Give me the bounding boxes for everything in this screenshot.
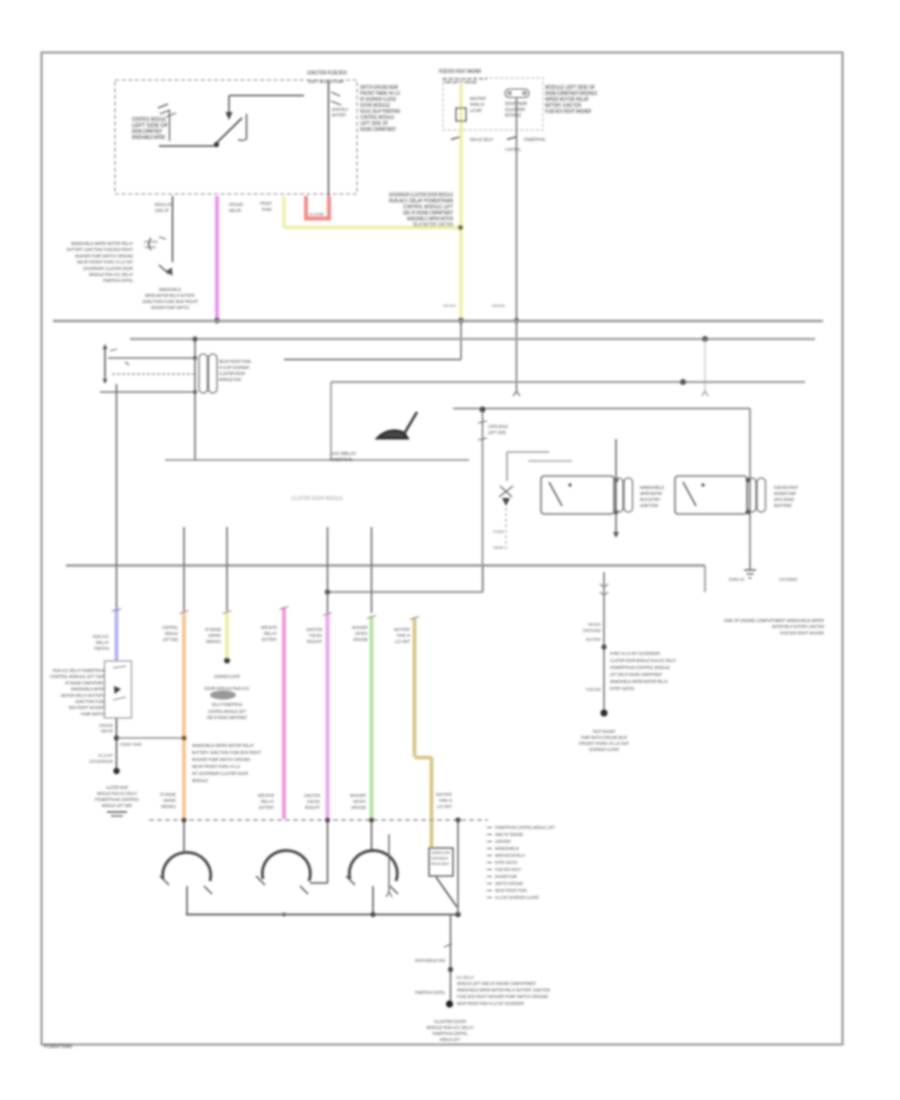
svg-text:COMPARTMENT: COMPARTMENT bbox=[208, 633, 221, 638]
svg-text:POWERTRAIN: POWERTRAIN bbox=[94, 646, 109, 651]
svg-text:MOTOR RELAY BATTERY: MOTOR RELAY BATTERY bbox=[61, 693, 105, 698]
svg-text:WIPER MOTOR RELAY: WIPER MOTOR RELAY bbox=[495, 853, 525, 858]
svg-text:HI LO INT: HI LO INT bbox=[98, 753, 113, 758]
svg-text:OF ENGINE: OF ENGINE bbox=[160, 792, 176, 797]
svg-text:RUN ACC DELAY POWERTRAIN: RUN ACC DELAY POWERTRAIN bbox=[53, 668, 105, 673]
svg-text:CLUSTER DOOR: CLUSTER DOOR bbox=[219, 371, 245, 376]
svg-text:NEAR FRONT PARK HI LO INT: NEAR FRONT PARK HI LO INT bbox=[77, 260, 133, 265]
svg-text:NEAR: NEAR bbox=[101, 729, 113, 734]
svg-text:WINDSHIELD WIPER: WINDSHIELD WIPER bbox=[71, 687, 105, 692]
svg-text:LO INT GOVERNOR: LO INT GOVERNOR bbox=[779, 577, 797, 582]
svg-text:NEAR FRONT: NEAR FRONT bbox=[436, 792, 452, 797]
svg-text:RIGHT: RIGHT bbox=[307, 639, 322, 644]
svg-text:SIDE OF ENGINE COMPARTMENT: SIDE OF ENGINE COMPARTMENT bbox=[207, 715, 247, 720]
svg-text:MODULE: MODULE bbox=[165, 631, 178, 636]
svg-text:SWITCH GROUND: SWITCH GROUND bbox=[495, 881, 523, 886]
svg-text:WIPER MOTOR: WIPER MOTOR bbox=[261, 625, 277, 630]
svg-text:LO INT: LO INT bbox=[395, 639, 410, 644]
svg-text:MODULE RUN ACC DELAY: MODULE RUN ACC DELAY bbox=[97, 791, 137, 796]
svg-text:HI LO INT: HI LO INT bbox=[309, 212, 324, 217]
svg-text:RELAY: RELAY bbox=[261, 799, 274, 804]
svg-text:POWERTRAIN: POWERTRAIN bbox=[524, 137, 545, 142]
svg-text:JUNCTION FUSE BOX: JUNCTION FUSE BOX bbox=[307, 71, 348, 77]
svg-text:OF ENGINE: OF ENGINE bbox=[205, 627, 221, 632]
svg-text:JUNCTION: JUNCTION bbox=[640, 503, 658, 508]
svg-text:MODULE RUN ACC DELAY: MODULE RUN ACC DELAY bbox=[427, 1025, 474, 1030]
svg-text:FRONT PARK HI LO INT: FRONT PARK HI LO INT bbox=[579, 741, 629, 746]
svg-text:CONTROL MODULE LEFT SIDE: CONTROL MODULE LEFT SIDE bbox=[50, 674, 105, 679]
svg-text:GROUND: GROUND bbox=[492, 303, 505, 308]
svg-text:DOOR MODULE: DOOR MODULE bbox=[505, 113, 521, 118]
svg-text:WINDSHIELD WIPER MOTOR RELAY B: WINDSHIELD WIPER MOTOR RELAY BATTERY JUN… bbox=[457, 988, 550, 993]
svg-text:COMPARTMENT: COMPARTMENT bbox=[495, 839, 511, 844]
svg-text:POWERTRAIN CONTROL MODULE LEFT: POWERTRAIN CONTROL MODULE LEFT bbox=[495, 825, 555, 830]
svg-text:COMPARTMENT: COMPARTMENT bbox=[144, 245, 156, 250]
svg-text:HI LO INT GOVERNOR: HI LO INT GOVERNOR bbox=[219, 365, 249, 370]
svg-text:NEAR: NEAR bbox=[229, 208, 241, 213]
svg-text:NEAR FRONT PARK: NEAR FRONT PARK bbox=[495, 888, 527, 893]
svg-text:BATTERY JUNCTION FUSE BOX RIGH: BATTERY JUNCTION FUSE BOX RIGHT bbox=[67, 247, 133, 252]
svg-text:DOOR MODULE RUN ACC: DOOR MODULE RUN ACC bbox=[205, 686, 251, 691]
svg-text:POWERTRAIN CONTROL: POWERTRAIN CONTROL bbox=[433, 1031, 468, 1036]
svg-text:GOVERNOR CLUSTER: GOVERNOR CLUSTER bbox=[214, 674, 240, 679]
svg-text:CONTROL MODULE LEFT: CONTROL MODULE LEFT bbox=[208, 709, 246, 714]
svg-text:SIDE OF: SIDE OF bbox=[155, 208, 169, 213]
svg-text:RUN ACC DELAY: RUN ACC DELAY bbox=[470, 137, 493, 142]
svg-text:FRONT: FRONT bbox=[260, 201, 272, 206]
svg-text:INT GOVERNOR CLUSTER DOOR: INT GOVERNOR CLUSTER DOOR bbox=[192, 771, 248, 776]
svg-text:RELAY BATTERY JUNCTION: RELAY BATTERY JUNCTION bbox=[413, 223, 453, 229]
svg-text:WINDSHIELD WIPER MOTOR RELAY: WINDSHIELD WIPER MOTOR RELAY bbox=[610, 679, 668, 684]
svg-text:PUMP SWITCH: PUMP SWITCH bbox=[588, 622, 601, 627]
svg-text:LEFT SIDE OF ENGINE COMPARTMEN: LEFT SIDE OF ENGINE COMPARTMENT bbox=[610, 672, 662, 677]
svg-text:BATTERY JUNCTION FUSE BOX RIGH: BATTERY JUNCTION FUSE BOX RIGHT bbox=[192, 750, 261, 755]
svg-text:PUMP SWITCH: PUMP SWITCH bbox=[443, 303, 456, 308]
svg-text:MODULE RUN ACC DELAY: MODULE RUN ACC DELAY bbox=[89, 272, 134, 277]
svg-text:DOOR MODULE RUN: DOOR MODULE RUN bbox=[415, 958, 445, 963]
svg-text:COMPARTMENT: COMPARTMENT bbox=[493, 545, 504, 550]
svg-text:FUSE BOX: FUSE BOX bbox=[307, 799, 320, 804]
svg-text:COMPARTMENT: COMPARTMENT bbox=[163, 798, 176, 803]
svg-text:MOTOR RELAY BATTERY JUNCTION: MOTOR RELAY BATTERY JUNCTION bbox=[772, 624, 824, 630]
svg-text:GROUND: GROUND bbox=[353, 637, 368, 642]
svg-text:ACC DELAY: ACC DELAY bbox=[330, 451, 357, 457]
svg-text:ACC DELAY: ACC DELAY bbox=[456, 975, 474, 980]
svg-text:SIDE OF ENGINE COMPARTMENT WIN: SIDE OF ENGINE COMPARTMENT WINDSHIELD WI… bbox=[724, 618, 824, 624]
svg-text:PARK HI: PARK HI bbox=[729, 577, 744, 582]
svg-text:PUMP SWITCH: PUMP SWITCH bbox=[353, 799, 366, 804]
svg-text:DELAY: DELAY bbox=[96, 640, 109, 645]
svg-text:BATTERY: BATTERY bbox=[259, 805, 274, 810]
svg-text:POWERTRAIN CONTROL: POWERTRAIN CONTROL bbox=[415, 990, 445, 995]
svg-text:GOVERNOR CLUSTER: GOVERNOR CLUSTER bbox=[431, 851, 450, 855]
svg-text:NEAR FRONT PARK HI LO: NEAR FRONT PARK HI LO bbox=[192, 764, 240, 769]
svg-text:WASHER PUMP SWITCH GROUND: WASHER PUMP SWITCH GROUND bbox=[75, 253, 133, 258]
svg-text:SWITCH GROUND: SWITCH GROUND bbox=[774, 497, 794, 502]
svg-text:WIPER MOTOR RELAY BATTERY: WIPER MOTOR RELAY BATTERY bbox=[145, 293, 195, 298]
svg-text:FUSE BOX RIGHT WASHER: FUSE BOX RIGHT WASHER bbox=[780, 630, 824, 636]
svg-text:BOX RIGHT WASHER: BOX RIGHT WASHER bbox=[69, 705, 105, 710]
svg-text:RIGHT WASHER PUMP: RIGHT WASHER PUMP bbox=[308, 79, 344, 84]
svg-text:BATTERY JUNCTION: BATTERY JUNCTION bbox=[495, 860, 517, 865]
svg-text:WASHER PUMP SWITCH GROUND: WASHER PUMP SWITCH GROUND bbox=[192, 757, 250, 762]
svg-text:CLUSTER DOOR MODULE: CLUSTER DOOR MODULE bbox=[291, 496, 343, 502]
svg-text:FUSE BOX RIGHT WASHER: FUSE BOX RIGHT WASHER bbox=[545, 109, 591, 115]
svg-text:CLUSTER DOOR MODULE RUN ACC DE: CLUSTER DOOR MODULE RUN ACC DELAY bbox=[610, 658, 676, 663]
svg-text:FUSE BOX: FUSE BOX bbox=[309, 633, 322, 638]
svg-text:MODULE LEFT: MODULE LEFT bbox=[155, 202, 173, 207]
svg-text:DOOR MODULE: DOOR MODULE bbox=[431, 857, 448, 861]
svg-text:OF ENGINE: OF ENGINE bbox=[493, 529, 504, 534]
svg-text:RUN ACC DELAY: RUN ACC DELAY bbox=[431, 862, 449, 866]
svg-text:RELAY BATTERY: RELAY BATTERY bbox=[640, 497, 660, 502]
svg-text:RIGHT: RIGHT bbox=[305, 805, 320, 810]
svg-text:CLUSTER DOOR: CLUSTER DOOR bbox=[106, 785, 128, 790]
svg-text:CLUSTER DOOR: CLUSTER DOOR bbox=[434, 1019, 467, 1024]
svg-text:WASHER: WASHER bbox=[350, 793, 366, 798]
svg-text:ENGINE COMPARTMENT: ENGINE COMPARTMENT bbox=[360, 127, 396, 133]
svg-text:WINDSHIELD WIPER MOTOR RELAY: WINDSHIELD WIPER MOTOR RELAY bbox=[71, 241, 134, 246]
svg-text:PUMP SWITCH: PUMP SWITCH bbox=[355, 631, 368, 636]
svg-text:WASHER PUMP: WASHER PUMP bbox=[774, 491, 796, 496]
svg-text:CLUSTER: CLUSTER bbox=[505, 107, 526, 112]
svg-text:CONTROL MODULE: CONTROL MODULE bbox=[488, 424, 508, 429]
svg-text:WIPER MOTOR: WIPER MOTOR bbox=[640, 491, 662, 496]
svg-text:GROUND: GROUND bbox=[229, 202, 243, 207]
svg-text:WINDSHIELD: WINDSHIELD bbox=[206, 639, 221, 644]
svg-text:JUNCTION: JUNCTION bbox=[304, 793, 320, 798]
svg-text:RIGHT WASHER: RIGHT WASHER bbox=[593, 729, 615, 734]
svg-text:PARK HI: PARK HI bbox=[397, 633, 410, 638]
svg-text:WINDSHIELD: WINDSHIELD bbox=[159, 287, 182, 292]
svg-text:BATTERY: BATTERY bbox=[262, 637, 277, 642]
svg-text:BATTERY JUNCTION: BATTERY JUNCTION bbox=[610, 686, 634, 691]
svg-text:OF ENGINE COMPARTMENT: OF ENGINE COMPARTMENT bbox=[65, 680, 105, 685]
svg-text:CONTROL: CONTROL bbox=[505, 147, 521, 152]
svg-text:POWERTRAIN: POWERTRAIN bbox=[44, 1044, 72, 1050]
svg-text:GROUND: GROUND bbox=[583, 628, 601, 633]
svg-text:NEAR FRONT: NEAR FRONT bbox=[774, 503, 792, 508]
svg-text:NEAR FRONT PARK HI LO INT GOVE: NEAR FRONT PARK HI LO INT GOVERNOR bbox=[457, 1001, 524, 1006]
svg-text:WASHER PUMP SWITCH: WASHER PUMP SWITCH bbox=[151, 305, 189, 310]
svg-text:POWERTRAIN CONTROL MODULE: POWERTRAIN CONTROL MODULE bbox=[610, 665, 670, 670]
svg-text:WASHER PUMP: WASHER PUMP bbox=[495, 874, 517, 879]
svg-text:NEAR FRONT: NEAR FRONT bbox=[394, 627, 410, 632]
svg-text:MODULE RUN: MODULE RUN bbox=[219, 377, 241, 382]
svg-text:POWERTRAIN CONTROL: POWERTRAIN CONTROL bbox=[95, 797, 139, 802]
svg-text:MOTOR RELAY: MOTOR RELAY bbox=[332, 107, 348, 112]
svg-text:HI LO INT GOVERNOR CLUSTER: HI LO INT GOVERNOR CLUSTER bbox=[495, 895, 539, 900]
svg-text:PARK: PARK bbox=[262, 207, 272, 212]
svg-text:PUMP SWITCH: PUMP SWITCH bbox=[81, 711, 105, 716]
svg-text:JUNCTION FUSE BOX RIGHT: JUNCTION FUSE BOX RIGHT bbox=[142, 299, 198, 304]
svg-text:JUNCTION: JUNCTION bbox=[306, 627, 322, 632]
svg-text:MODULE LEFT: MODULE LEFT bbox=[440, 1037, 460, 1042]
svg-text:GOVERNOR: GOVERNOR bbox=[89, 759, 113, 764]
svg-text:LEFT SIDE: LEFT SIDE bbox=[163, 637, 178, 642]
svg-text:GROUND: GROUND bbox=[99, 723, 113, 728]
svg-text:PARK HI LO INT GOVERNOR: PARK HI LO INT GOVERNOR bbox=[610, 651, 661, 656]
svg-text:WINDSHIELD WIPER MOTOR RELAY: WINDSHIELD WIPER MOTOR RELAY bbox=[192, 743, 255, 748]
svg-text:GROUND: GROUND bbox=[351, 805, 366, 810]
svg-text:NEAR FRONT: NEAR FRONT bbox=[470, 96, 486, 101]
svg-text:LO INT: LO INT bbox=[437, 804, 452, 809]
svg-text:SIDE OF ENGINE: SIDE OF ENGINE bbox=[495, 832, 523, 837]
svg-text:WINDSHIELD WIPER: WINDSHIELD WIPER bbox=[132, 135, 165, 141]
svg-text:FUSE BOX RIGHT: FUSE BOX RIGHT bbox=[774, 485, 798, 490]
svg-text:MODULE LEFT SIDE: MODULE LEFT SIDE bbox=[102, 803, 132, 808]
svg-text:GOVERNOR CLUSTER DOOR: GOVERNOR CLUSTER DOOR bbox=[83, 266, 133, 271]
svg-text:CONTROL: CONTROL bbox=[162, 625, 178, 630]
svg-text:POWERTRAIN CONTROL: POWERTRAIN CONTROL bbox=[103, 278, 133, 283]
svg-text:NEAR FRONT: NEAR FRONT bbox=[586, 637, 601, 642]
svg-text:NEAR FRONT PARK: NEAR FRONT PARK bbox=[219, 359, 251, 364]
svg-text:PARK HI: PARK HI bbox=[439, 798, 452, 803]
svg-text:FUSE BOX RIGHT: FUSE BOX RIGHT bbox=[495, 867, 521, 872]
svg-text:POWERTRAIN: POWERTRAIN bbox=[330, 457, 352, 463]
svg-text:RELAY: RELAY bbox=[264, 631, 277, 636]
svg-text:WINDSHIELD: WINDSHIELD bbox=[495, 846, 519, 851]
svg-text:FUSE BOX: FUSE BOX bbox=[586, 687, 601, 692]
svg-text:RUN ACC: RUN ACC bbox=[93, 634, 109, 639]
svg-text:FUSE BOX RIGHT WASHER PUMP SWI: FUSE BOX RIGHT WASHER PUMP SWITCH GROUND bbox=[457, 994, 549, 999]
svg-text:BATTERY: BATTERY bbox=[332, 113, 346, 118]
svg-text:MODULE LEFT SIDE OF ENGINE COM: MODULE LEFT SIDE OF ENGINE COMPARTMENT bbox=[457, 981, 536, 986]
svg-text:PARK HI: PARK HI bbox=[470, 102, 484, 107]
svg-text:GOVERNOR CLUSTER: GOVERNOR CLUSTER bbox=[589, 747, 619, 752]
svg-text:PUMP SWITCH GROUND NEAR: PUMP SWITCH GROUND NEAR bbox=[581, 735, 627, 740]
svg-text:DELAY POWERTRAIN: DELAY POWERTRAIN bbox=[212, 702, 242, 707]
svg-text:JUNCTION FUSE: JUNCTION FUSE bbox=[75, 699, 105, 704]
svg-text:FRONT PARK: FRONT PARK bbox=[120, 742, 142, 747]
svg-text:ENGINE: ENGINE bbox=[144, 239, 158, 244]
svg-text:WASHER: WASHER bbox=[352, 625, 368, 630]
svg-text:WINDSHIELD: WINDSHIELD bbox=[161, 804, 176, 809]
svg-text:LEFT SIDE: LEFT SIDE bbox=[488, 430, 506, 435]
svg-text:WIPER MOTOR: WIPER MOTOR bbox=[258, 793, 274, 798]
svg-text:LO INT: LO INT bbox=[470, 108, 482, 113]
svg-text:WINDSHIELD: WINDSHIELD bbox=[640, 485, 664, 490]
svg-text:FUSE BOX RIGHT WASHER: FUSE BOX RIGHT WASHER bbox=[439, 69, 481, 75]
svg-text:MODULE: MODULE bbox=[192, 778, 208, 783]
